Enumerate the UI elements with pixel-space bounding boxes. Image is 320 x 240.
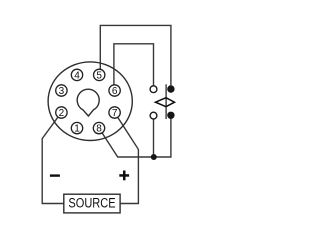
svg-text:1: 1 <box>74 124 80 135</box>
wire NC column lower segment <box>153 119 155 157</box>
svg-text:2: 2 <box>59 108 65 119</box>
pin 5 <box>94 69 105 81</box>
wire pin2 to source minus <box>42 117 63 203</box>
svg-text:4: 4 <box>74 70 80 81</box>
socket center keyway <box>77 89 99 116</box>
svg-text:3: 3 <box>59 86 65 97</box>
wire pin5 to top fixed contact (outer loop) <box>100 25 171 85</box>
movable contact arm <box>165 84 167 119</box>
NO contact (filled circle, bottom) <box>167 112 174 119</box>
svg-text:7: 7 <box>112 108 118 119</box>
NC fixed contact (open circle, bottom) <box>150 112 157 119</box>
pin 6 <box>109 85 120 97</box>
junction dot on common rail <box>151 154 157 160</box>
wire pin8 to contact common rail <box>102 119 171 157</box>
pin 8 <box>93 122 104 134</box>
svg-text:SOURCE: SOURCE <box>68 195 115 210</box>
wire pin7 to source plus <box>118 117 139 203</box>
wire pin6 to NC contact (inner loop) <box>114 44 154 86</box>
source box <box>64 194 120 213</box>
pin 3 <box>56 85 67 97</box>
socket outline <box>48 62 132 141</box>
plus label <box>119 171 129 181</box>
NO contact (filled circle, top) <box>167 85 174 92</box>
pin 7 <box>109 107 120 119</box>
actuator diamond <box>156 98 175 107</box>
pin 2 <box>56 107 67 119</box>
pin 4 <box>71 69 82 81</box>
svg-text:8: 8 <box>96 124 102 135</box>
svg-text:5: 5 <box>96 70 102 81</box>
svg-text:6: 6 <box>112 86 118 97</box>
minus label <box>50 174 60 176</box>
NC fixed contact (open circle, top) <box>150 86 157 93</box>
pin 1 <box>71 122 82 134</box>
